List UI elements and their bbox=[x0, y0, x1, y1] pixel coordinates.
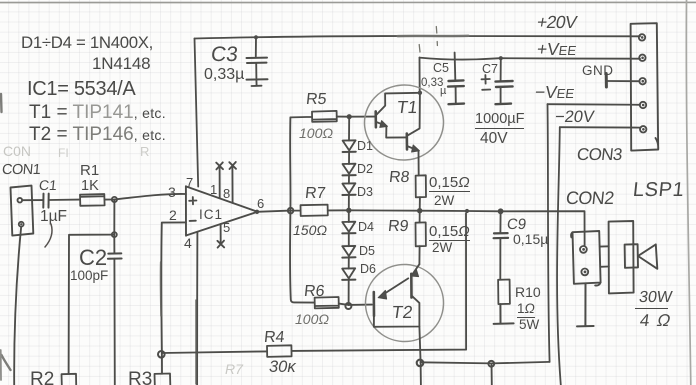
wire drop from bottom node mid bbox=[491, 363, 493, 385]
transistor T1 internals bbox=[376, 93, 420, 152]
resistor R9 bbox=[416, 211, 426, 247]
capacitor C9 bbox=[494, 211, 509, 279]
label D5 bbox=[359, 245, 375, 258]
node R8/R9 bbox=[417, 208, 422, 213]
wire bottom -VEE rail bbox=[421, 362, 550, 364]
label R10 watts bbox=[519, 318, 539, 332]
node diode chain mid bbox=[346, 208, 351, 213]
wire R1 to node bbox=[105, 199, 115, 201]
pin 7 bbox=[186, 176, 193, 189]
label C2 bbox=[79, 247, 107, 269]
label R9 value bbox=[429, 224, 470, 241]
label +20V bbox=[535, 14, 577, 32]
transistor T1 circle bbox=[362, 82, 446, 162]
label GND bbox=[582, 64, 614, 78]
wire GND to CON3 bbox=[608, 80, 640, 82]
label IC1 type bbox=[27, 79, 135, 99]
wire +VEE drop to T1 collector bbox=[419, 58, 421, 93]
label C7 value bbox=[475, 112, 524, 129]
label R7 value bbox=[293, 223, 327, 237]
ghost R7 bbox=[225, 362, 243, 376]
label R6 value bbox=[295, 312, 329, 326]
pin 1 no-connect bbox=[216, 162, 223, 198]
label R6 bbox=[303, 284, 325, 300]
transistor T2 internals bbox=[374, 264, 420, 327]
resistor R8 bbox=[416, 175, 426, 197]
pin 6 bbox=[257, 197, 264, 210]
label R2 bbox=[30, 370, 54, 385]
resistor R2 bbox=[62, 374, 77, 385]
wire pin 4 down bbox=[196, 232, 198, 385]
connector CON1 bbox=[11, 186, 34, 236]
pin 5 bbox=[223, 221, 230, 234]
node feedback tap bbox=[465, 209, 469, 213]
node C3 top junction bbox=[254, 35, 258, 39]
node bottom left bbox=[417, 360, 424, 367]
pin 5 no-connect bbox=[217, 224, 224, 248]
label R3 bbox=[128, 370, 152, 385]
wire C1 to R1 bbox=[49, 199, 80, 201]
label D4 bbox=[358, 221, 374, 234]
node output pin 6 bbox=[255, 210, 259, 214]
label D6 bbox=[360, 263, 376, 276]
label R9 watts bbox=[432, 241, 452, 255]
node C2 top bbox=[112, 232, 117, 237]
label C7 bbox=[482, 63, 498, 76]
label D1 bbox=[357, 140, 373, 153]
wire node to T1 base bbox=[349, 116, 374, 118]
resistor R1 bbox=[80, 194, 105, 206]
node after R1 bbox=[112, 197, 117, 202]
wire pin 6 to R7 node bbox=[257, 211, 290, 212]
wire -VEE vertical bbox=[548, 104, 550, 362]
pin 3 bbox=[168, 185, 176, 199]
label C9 bbox=[506, 217, 527, 232]
label C5 value bbox=[421, 78, 443, 90]
pin 8 bbox=[223, 187, 230, 200]
wire CON1 pin2 down bbox=[14, 227, 21, 385]
scan edge left marks bbox=[1, 94, 11, 370]
label C1 bbox=[38, 178, 57, 192]
diode D4 bbox=[342, 210, 355, 233]
wire node to T2 base bbox=[349, 304, 372, 306]
label D3 bbox=[357, 186, 373, 199]
pin 1 bbox=[210, 183, 217, 196]
wire CON2 ground bbox=[577, 284, 594, 327]
wire +VEE rail bbox=[420, 58, 641, 60]
label R10 bbox=[515, 285, 541, 299]
capacitor C7 (electrolytic) bbox=[482, 58, 513, 104]
label T2 type bbox=[29, 125, 166, 144]
label C3 bbox=[210, 44, 239, 65]
diode D2 bbox=[343, 152, 356, 175]
resistor R3 bbox=[155, 374, 171, 385]
label R5 bbox=[305, 92, 327, 108]
node T1 collector bbox=[418, 91, 422, 95]
capacitor C2 bbox=[108, 235, 122, 385]
label R4 value bbox=[269, 359, 296, 376]
label CON2 bbox=[565, 189, 615, 207]
label R4 bbox=[263, 330, 285, 346]
node T2 base junction bbox=[345, 303, 351, 309]
label speaker power bbox=[638, 290, 673, 306]
label T1 type bbox=[29, 103, 166, 122]
smudge on +20V rail bbox=[398, 34, 468, 38]
wire -VEE rail bbox=[548, 103, 641, 106]
wire V+ supply to pin 7 of IC1 bbox=[195, 39, 199, 187]
label R7 bbox=[304, 186, 326, 202]
wire R8 to output node bbox=[419, 197, 421, 211]
node driver rail left bbox=[288, 208, 294, 214]
label R8 bbox=[388, 170, 410, 186]
wire CON1 to C1 bbox=[22, 199, 43, 201]
label R1 value bbox=[81, 179, 99, 194]
wire node to pin 3 bbox=[114, 194, 185, 200]
label R5 value bbox=[299, 126, 333, 140]
capacitor C5 bbox=[448, 53, 464, 105]
wire D6 to T2 node bbox=[348, 280, 350, 305]
capacitor C1 bbox=[43, 194, 48, 208]
label +VEE bbox=[536, 41, 578, 59]
wire C2 branch bbox=[69, 200, 115, 374]
scan edge right bbox=[686, 0, 690, 385]
resistor R5 bbox=[290, 111, 336, 122]
wire R5/R6 vertical bbox=[290, 117, 315, 302]
label C9 value bbox=[513, 232, 548, 246]
connector CON3 bbox=[631, 23, 659, 150]
wire D3 to node bbox=[348, 195, 350, 210]
capacitor C3 bbox=[247, 37, 268, 86]
label IC1 bbox=[199, 208, 223, 222]
wire R10 bottom bbox=[494, 304, 514, 324]
wire pin 2 feedback vertical bbox=[161, 222, 186, 353]
label R9 bbox=[387, 219, 409, 235]
wire T1 emitter to R8 bbox=[418, 151, 420, 175]
label CON1 bbox=[1, 163, 41, 178]
label -20V bbox=[554, 109, 595, 126]
diode D5 bbox=[342, 233, 355, 257]
wire +20V rail bbox=[195, 36, 641, 39]
wire drop from bottom node left bbox=[420, 362, 422, 385]
pin 8 no-connect bbox=[229, 162, 236, 203]
wire R5 to node bbox=[337, 116, 349, 118]
label C2 value bbox=[70, 269, 108, 283]
node C9 tap bbox=[498, 208, 504, 214]
node feedback left bbox=[158, 351, 165, 358]
tick above corner bbox=[419, 27, 437, 53]
op-amp IC1 bbox=[186, 186, 257, 236]
label R10 value bbox=[517, 302, 535, 318]
label CON3 bbox=[576, 146, 623, 163]
wire R6 to node bbox=[339, 304, 349, 305]
label R8 watts bbox=[434, 194, 454, 208]
ground GND stub bbox=[605, 74, 608, 88]
label R1 bbox=[80, 163, 99, 178]
transistor T2 circle bbox=[364, 263, 446, 344]
pin 4 bbox=[184, 236, 192, 250]
label T2 bbox=[391, 304, 414, 322]
node C7 junction bbox=[499, 56, 503, 60]
wire feedback from output bbox=[162, 213, 466, 353]
label C1 value bbox=[40, 209, 67, 225]
connector CON2 bbox=[571, 231, 600, 285]
pin 2 bbox=[169, 208, 177, 222]
label notes D1-D4 types bbox=[21, 35, 153, 52]
label -VEE bbox=[534, 84, 576, 102]
resistor R6 bbox=[315, 297, 339, 308]
label T1 bbox=[396, 99, 419, 117]
wire R7 to chain node bbox=[328, 209, 349, 211]
wire node to R3 bbox=[161, 353, 163, 374]
diode D3 bbox=[342, 175, 355, 195]
wire -20V rail bbox=[560, 126, 640, 128]
resistor R7 bbox=[290, 205, 327, 216]
diode D6 bbox=[342, 258, 355, 280]
label C3 value bbox=[204, 67, 244, 83]
wire output rail bbox=[349, 210, 585, 246]
label LSP1 bbox=[632, 180, 685, 200]
wire -20V vertical bbox=[557, 127, 561, 385]
wire T2 collector to -VEE rail bbox=[419, 327, 420, 363]
node T1 base junction bbox=[347, 114, 352, 119]
speaker LSP1 bbox=[600, 221, 658, 293]
label C5 bbox=[433, 62, 449, 75]
node bottom mid bbox=[488, 361, 494, 367]
resistor R4 bbox=[267, 345, 292, 357]
label R8 value bbox=[429, 175, 470, 192]
ghost bleedthrough text bbox=[3, 144, 31, 158]
diode D1 bbox=[343, 117, 356, 152]
wire R9 to T2 emitter bbox=[418, 246, 420, 264]
resistor R10 bbox=[498, 280, 510, 305]
label D2 bbox=[357, 163, 373, 176]
scan edge top bbox=[0, 1, 696, 3]
label 1N4148 bbox=[92, 55, 150, 72]
